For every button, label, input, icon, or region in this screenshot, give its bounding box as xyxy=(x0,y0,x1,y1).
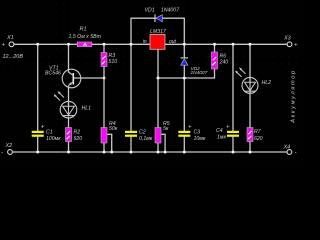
resistor R1 (1,5 Ом х 5Вт) xyxy=(69,26,102,46)
junction adj node at C3 column xyxy=(183,77,186,80)
wire: R2 to ground rail xyxy=(68,142,70,153)
svg-text:X1: X1 xyxy=(6,35,14,41)
wire: output rail to VD2 xyxy=(183,44,185,58)
wire: HL1 to R2 xyxy=(68,117,70,128)
wire: bottom ground rail X2 to X4 xyxy=(13,151,288,153)
wire: adj horizontal line to R6 xyxy=(158,77,215,79)
junction ground rail at C4 xyxy=(232,151,235,154)
svg-text:1,5 Ом х 5Вт: 1,5 Ом х 5Вт xyxy=(69,34,102,40)
svg-text:X3: X3 xyxy=(283,36,292,42)
junction VT1 base node xyxy=(103,77,106,80)
terminal X2 xyxy=(1,143,12,156)
svg-text:12...20В: 12...20В xyxy=(3,54,24,60)
LED HL1 xyxy=(54,91,92,118)
svg-text:920: 920 xyxy=(74,136,83,142)
terminal X4 xyxy=(283,145,297,157)
svg-text:C2: C2 xyxy=(139,130,146,136)
wire: R4 wiper to ground xyxy=(107,134,112,152)
wire: R5 to ground rail xyxy=(157,142,159,153)
resistor R7 (620) xyxy=(247,128,263,142)
svg-text:50к: 50к xyxy=(109,126,118,132)
regulator U1 LM317 xyxy=(143,29,177,49)
wire: C3 to ground rail xyxy=(183,137,185,153)
svg-text:VD1: VD1 xyxy=(145,8,155,14)
junction ground rail at R5 xyxy=(157,151,160,154)
diode VD1 (1N4007) xyxy=(145,8,181,23)
LED HL2 xyxy=(235,68,271,94)
svg-text:R1: R1 xyxy=(80,26,87,32)
junction ground rail at C3 xyxy=(183,151,186,154)
svg-text:+: + xyxy=(294,43,298,49)
wire: R4 to ground rail xyxy=(103,142,105,153)
wire: input top rail X1 to R1 xyxy=(14,43,77,45)
svg-text:HL2: HL2 xyxy=(262,80,272,86)
junction adj node at R5 xyxy=(157,77,160,80)
svg-text:-: - xyxy=(295,150,297,156)
wire: VT1 collector xyxy=(68,44,70,72)
resistor R2 (920) xyxy=(66,128,83,142)
svg-text:X4: X4 xyxy=(283,145,291,151)
svg-text:LM317: LM317 xyxy=(150,29,167,35)
svg-text:5к: 5к xyxy=(163,126,169,132)
junction ground rail at C2 xyxy=(130,151,133,154)
wire: R6 to adj line xyxy=(214,69,216,79)
svg-text:C1: C1 xyxy=(46,130,53,136)
wire: HL2 to R7 xyxy=(249,92,251,128)
wire: VT1 base lead xyxy=(73,77,104,79)
wire: VD1 left drop to input rail xyxy=(130,18,132,45)
svg-text:R7: R7 xyxy=(254,129,262,135)
junction on output rail at HL2 column xyxy=(249,43,252,46)
wire: VD2 to C3 through adj node xyxy=(183,65,185,131)
wire: R7 to ground rail xyxy=(249,142,251,153)
junction ground rail at R4 xyxy=(103,151,106,154)
wire: output rail to HL2 xyxy=(249,44,251,82)
svg-text:R2: R2 xyxy=(74,130,81,136)
wire: VT1 emitter to HL1 xyxy=(68,86,70,107)
wire: output rail LM317 out to X3 xyxy=(165,43,287,45)
junction ground rail at R4 wiper xyxy=(110,151,113,154)
capacitor C2 (0,1мк) xyxy=(125,130,153,142)
svg-text:100мк: 100мк xyxy=(46,136,61,142)
capacitor C1 (100мк) polarized xyxy=(32,125,62,142)
resistor R6 (240) xyxy=(212,52,229,69)
diode VD2 (1N4007) xyxy=(181,58,208,76)
wire: output rail to R6 xyxy=(214,44,216,52)
svg-text:C3: C3 xyxy=(194,130,201,136)
terminal X1 xyxy=(2,35,14,49)
svg-text:X2: X2 xyxy=(5,143,13,149)
wire: R5 wiper to ground xyxy=(161,134,165,152)
wire: rail to R3 xyxy=(103,44,105,52)
svg-text:510: 510 xyxy=(109,59,118,65)
junction ground rail at R7 xyxy=(249,151,252,154)
wire: VD1 top loop horizontal xyxy=(131,17,184,19)
svg-text:-: - xyxy=(1,150,3,156)
wire: C1 column lower xyxy=(37,137,39,153)
svg-text:BC546: BC546 xyxy=(45,70,61,76)
svg-text:Аккумулятор: Аккумулятор xyxy=(291,69,297,124)
svg-text:620: 620 xyxy=(254,136,263,142)
wire: C2 column upper xyxy=(130,44,132,131)
junction on output rail at VD1/VD2 column xyxy=(183,43,186,46)
wire: VD1 right drop to output rail xyxy=(183,18,185,45)
junction ground rail at R5 wiper xyxy=(164,151,167,154)
junction on output rail at R6 column xyxy=(213,43,216,46)
svg-text:in: in xyxy=(143,39,147,45)
wire: R3 to R4 through base node xyxy=(103,67,105,128)
svg-text:0,1мк: 0,1мк xyxy=(139,136,153,142)
junction on output rail at C4 column xyxy=(232,43,235,46)
svg-text:HL1: HL1 xyxy=(82,106,92,112)
svg-text:1N4007: 1N4007 xyxy=(161,8,180,14)
wire: C2 column lower xyxy=(130,137,132,153)
junction on input rail at R3 column xyxy=(103,43,106,46)
junction ground rail at C1 xyxy=(36,151,39,154)
wire: C4 column lower xyxy=(232,137,234,153)
junction on input rail at C1 column xyxy=(36,43,39,46)
svg-text:+: + xyxy=(188,125,192,131)
junction on input rail at collector column xyxy=(67,43,70,46)
svg-text:+: + xyxy=(41,125,45,131)
svg-text:+: + xyxy=(226,125,230,131)
capacitor C4 (1мк) polarized xyxy=(216,125,239,141)
svg-text:C4: C4 xyxy=(216,128,223,134)
svg-text:1N4007: 1N4007 xyxy=(191,70,208,76)
svg-text:+: + xyxy=(2,43,6,49)
wire: LM317 adj lead down to R5 xyxy=(157,49,159,127)
junction on input rail at C2/VD1 column xyxy=(130,43,133,46)
junction ground rail at R2 xyxy=(67,151,70,154)
svg-text:240: 240 xyxy=(219,59,229,65)
svg-text:1мк: 1мк xyxy=(217,134,226,140)
svg-text:out: out xyxy=(169,39,177,45)
background grid dots xyxy=(0,0,300,161)
wire: top rail R1 to LM317 in xyxy=(92,43,150,45)
resistor R3 (510) xyxy=(101,53,117,67)
terminal X3 xyxy=(283,36,298,49)
resistor R4 trimmer (50к) xyxy=(101,121,118,143)
capacitor C3 (10мк) polarized xyxy=(178,125,206,142)
transistor Q1 VT1 BC546 xyxy=(45,65,81,87)
wire: C1 column upper xyxy=(37,44,39,131)
resistor R5 (5к) xyxy=(155,121,170,143)
wire: C4 column upper xyxy=(232,44,234,131)
svg-text:10мк: 10мк xyxy=(194,136,206,142)
